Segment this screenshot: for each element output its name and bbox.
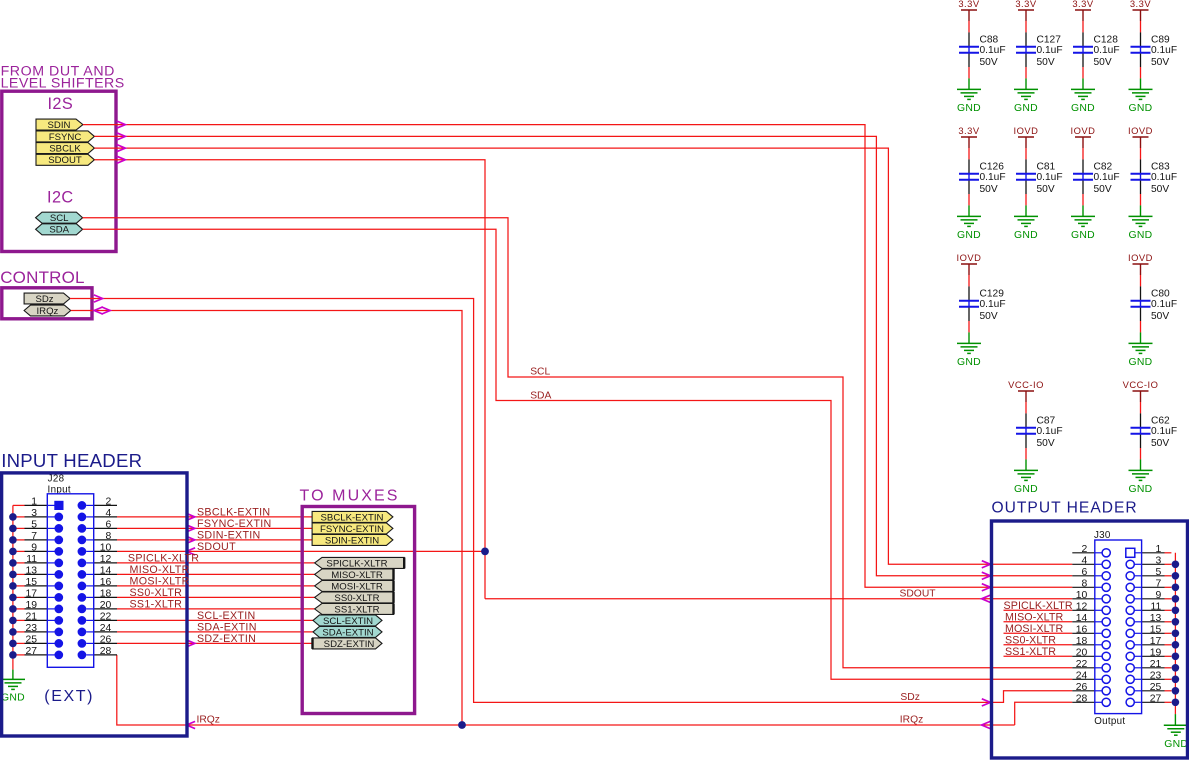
svg-text:19: 19 [25, 600, 37, 611]
svg-text:SCL-EXTIN: SCL-EXTIN [197, 610, 256, 622]
arrow left on IRQz at output header [982, 721, 991, 728]
svg-text:C89: C89 [1151, 35, 1170, 46]
junction IRQz node [458, 721, 466, 729]
pin 3 of J28 [13, 516, 25, 518]
pin 9 of J30 [1126, 595, 1134, 603]
svg-text:SDOUT: SDOUT [197, 541, 236, 553]
arrow right on EXTIN wire [186, 525, 195, 532]
wire output pin12 stub SPICLK-XLTR [1004, 609, 1073, 611]
svg-text:IRQz: IRQz [900, 715, 923, 726]
capacitor C83 [1140, 159, 1142, 173]
pin 17 of J28 [13, 596, 25, 598]
svg-text:24: 24 [1076, 670, 1088, 681]
svg-text:18: 18 [1076, 636, 1088, 647]
svg-text:SS0-XLTR: SS0-XLTR [1005, 634, 1056, 646]
box FROM DUT AND LEVEL SHIFTERS [2, 91, 116, 251]
svg-text:FSYNC: FSYNC [49, 132, 82, 143]
pin 18 of J30 [1072, 644, 1095, 646]
wire SDIN-EXTIN input pin8 to mux port [117, 539, 312, 541]
junction output bus pin 17 [1172, 641, 1180, 649]
port FSYNC (I2S) [36, 131, 94, 142]
svg-text:0.1uF: 0.1uF [980, 172, 1006, 183]
svg-text:50V: 50V [1094, 57, 1112, 68]
svg-text:3.3V: 3.3V [958, 125, 980, 136]
svg-text:6: 6 [106, 520, 112, 531]
pin 25 of J30 [1126, 687, 1134, 695]
arrow right on SDZ-EXTIN wire [186, 640, 195, 647]
wire C83 to ground [1140, 194, 1142, 205]
svg-text:20: 20 [1076, 647, 1088, 658]
svg-text:MISO-XLTR: MISO-XLTR [1005, 611, 1063, 623]
svg-text:LEVEL SHIFTERS: LEVEL SHIFTERS [1, 75, 125, 91]
capacitor C89 [1140, 32, 1142, 46]
svg-text:4: 4 [1082, 555, 1088, 566]
pin 14 of J28 [78, 570, 87, 579]
svg-text:SPICLK-XLTR: SPICLK-XLTR [326, 558, 387, 569]
svg-text:10: 10 [1076, 590, 1088, 601]
wire SS1-XLTR input pin20 to mux port [117, 608, 315, 610]
pin 2 of J30 [1072, 552, 1095, 554]
ground symbol below C87 [1014, 469, 1038, 471]
capacitor C129 [968, 286, 970, 300]
svg-text:0.1uF: 0.1uF [1094, 172, 1120, 183]
connector J30 body [1095, 540, 1142, 714]
wire MOSI-XLTR input pin16 to mux port [117, 585, 315, 587]
svg-text:5: 5 [1156, 567, 1162, 578]
svg-text:MISO-XLTR: MISO-XLTR [130, 564, 190, 576]
port SCL-EXTIN (TO MUXES) [313, 615, 382, 626]
svg-text:5: 5 [31, 520, 37, 531]
wire C62 to ground [1140, 448, 1142, 459]
svg-text:50V: 50V [1037, 57, 1055, 68]
pin 25 of J28 [13, 642, 25, 644]
wire C80 to ground [1140, 321, 1142, 332]
ground symbol below C129 [957, 342, 981, 344]
junction output bus pin 5 [1172, 572, 1180, 580]
wire VCC-IO to C87 [1025, 402, 1027, 413]
svg-text:27: 27 [25, 646, 37, 657]
svg-text:0.1uF: 0.1uF [1037, 45, 1063, 56]
junction input bus pin 9 [9, 548, 17, 556]
port SCL (I2C) [36, 212, 83, 223]
wire MISO-XLTR input pin14 to mux port [117, 573, 315, 575]
wire C81 to ground [1025, 194, 1027, 205]
ground symbol below C127 [1014, 88, 1038, 90]
svg-text:12: 12 [100, 554, 112, 565]
capacitor C88 [968, 32, 970, 46]
pin 27 of J30 [1126, 698, 1134, 706]
svg-text:3.3V: 3.3V [958, 0, 980, 9]
arrow left on SDOUT wire [187, 548, 196, 555]
svg-text:3.3V: 3.3V [1072, 0, 1094, 9]
ground symbol below C80 [1129, 342, 1153, 344]
arrow right on EXTIN wire [186, 536, 195, 543]
ground symbol below C82 [1071, 215, 1095, 217]
svg-text:SBCLK-EXTIN: SBCLK-EXTIN [321, 512, 384, 523]
junction input bus pin 11 [9, 559, 17, 567]
wire output header bus ground segment [1174, 714, 1176, 725]
wire VCC-IO to C62 [1140, 402, 1142, 413]
svg-text:24: 24 [100, 623, 112, 634]
svg-text:SS0-XLTR: SS0-XLTR [130, 587, 183, 599]
port SS1-XLTR (TO MUXES) [315, 603, 394, 614]
pin 26 of J30 [1072, 690, 1095, 692]
wire FSYNC net [94, 136, 1072, 575]
svg-text:14: 14 [1076, 613, 1088, 624]
svg-text:SDz: SDz [900, 692, 919, 703]
svg-text:MOSI-XLTR: MOSI-XLTR [1005, 623, 1063, 635]
box CONTROL [2, 288, 92, 319]
wire output pin20 stub SS1-XLTR [1004, 655, 1073, 657]
junction output bus pin 15 [1172, 630, 1180, 638]
svg-text:C82: C82 [1094, 162, 1113, 173]
svg-text:SDZ-EXTIN: SDZ-EXTIN [324, 639, 375, 650]
wire C88 to ground [968, 67, 970, 78]
svg-text:C128: C128 [1094, 35, 1119, 46]
junction input bus pin 5 [9, 525, 17, 533]
svg-text:C126: C126 [980, 162, 1005, 173]
svg-text:2: 2 [1082, 544, 1088, 555]
svg-text:SS1-XLTR: SS1-XLTR [1005, 646, 1056, 658]
svg-text:VCC-IO: VCC-IO [1123, 379, 1159, 390]
svg-text:Output: Output [1094, 716, 1125, 727]
svg-text:GND: GND [1129, 357, 1153, 368]
junction output bus pin 27 [1172, 699, 1180, 707]
svg-text:SDz: SDz [35, 294, 53, 305]
svg-text:1: 1 [31, 497, 37, 508]
pin 1 of J28 [13, 504, 25, 506]
wire SBCLK-EXTIN input pin4 to mux port [117, 516, 312, 518]
svg-text:CONTROL: CONTROL [0, 268, 85, 287]
svg-text:MOSI-XLTR: MOSI-XLTR [130, 575, 190, 587]
svg-text:FSYNC-EXTIN: FSYNC-EXTIN [320, 524, 384, 535]
pin 10 of J28 [78, 547, 87, 556]
svg-text:28: 28 [100, 646, 112, 657]
port MISO-XLTR (TO MUXES) [315, 569, 394, 580]
svg-text:GND: GND [957, 230, 981, 241]
wire SDA-EXTIN input pin24 to mux port [117, 631, 313, 633]
svg-text:0.1uF: 0.1uF [980, 45, 1006, 56]
pin 19 of J28 [13, 608, 25, 610]
svg-text:17: 17 [1150, 636, 1162, 647]
svg-text:GND: GND [1014, 103, 1038, 114]
svg-text:7: 7 [1156, 578, 1162, 589]
junction input bus pin 27 [9, 651, 17, 659]
wire 3.3V to C88 [968, 21, 970, 32]
svg-text:TO MUXES: TO MUXES [300, 488, 400, 505]
svg-text:13: 13 [1150, 613, 1162, 624]
port SDA-EXTIN (TO MUXES) [313, 626, 382, 637]
wire C89 to ground [1140, 67, 1142, 78]
svg-text:11: 11 [1151, 601, 1162, 612]
pin 23 of J30 [1126, 675, 1134, 683]
svg-text:17: 17 [25, 589, 37, 600]
pin 12 of J30 [1072, 609, 1095, 611]
svg-text:GND: GND [1129, 103, 1153, 114]
arrow right on I2S wire [117, 133, 126, 140]
pin 20 of J30 [1072, 655, 1095, 657]
pin 11 of J28 [13, 562, 25, 564]
pin 24 of J28 [78, 628, 87, 637]
svg-text:15: 15 [1150, 624, 1162, 635]
pin 21 of J30 [1126, 664, 1134, 672]
pin 10 of J30 [1072, 598, 1095, 600]
pin 28 of J30 [1072, 701, 1095, 703]
svg-text:GND: GND [1014, 484, 1038, 495]
wire 3.3V to C127 [1025, 21, 1027, 32]
capacitor C82 [1082, 159, 1084, 173]
svg-text:2: 2 [106, 497, 112, 508]
svg-text:9: 9 [1156, 590, 1162, 601]
wire input header left bus [12, 505, 14, 669]
pin 2 of J28 [78, 501, 87, 510]
junction input bus pin 7 [9, 536, 17, 544]
port SDA (I2C) [36, 224, 83, 235]
arrow right into output header [982, 572, 991, 579]
arrow right on SDz at output header [982, 699, 991, 706]
wire C126 to ground [968, 194, 970, 205]
svg-text:16: 16 [1076, 624, 1088, 635]
wire C129 to ground [968, 321, 970, 332]
svg-text:3: 3 [31, 508, 37, 519]
junction input bus pin 21 [9, 617, 17, 625]
svg-text:50V: 50V [1094, 184, 1112, 195]
wire 3.3V to C126 [968, 148, 970, 159]
svg-text:21: 21 [1150, 659, 1162, 670]
junction output bus pin 11 [1172, 607, 1180, 615]
capacitor C127 [1025, 32, 1027, 46]
pin 14 of J30 [1072, 621, 1095, 623]
svg-text:SDZ-EXTIN: SDZ-EXTIN [197, 633, 256, 645]
wire C87 to ground [1025, 448, 1027, 459]
svg-text:50V: 50V [1151, 311, 1169, 322]
pin 27 of J28 [13, 654, 25, 656]
wire 3.3V to C128 [1082, 21, 1084, 32]
svg-text:0.1uF: 0.1uF [1151, 426, 1177, 437]
svg-text:23: 23 [1150, 670, 1162, 681]
junction output bus pin 13 [1172, 618, 1180, 626]
svg-text:8: 8 [106, 531, 112, 542]
wire IRQz to output header pin 28 [1015, 702, 1073, 725]
svg-text:IOVD: IOVD [1014, 125, 1039, 136]
box OUTPUT HEADER [992, 521, 1188, 758]
svg-text:SDA: SDA [49, 225, 69, 236]
svg-text:C83: C83 [1151, 162, 1170, 173]
svg-text:50V: 50V [1151, 184, 1169, 195]
wire 3.3V to C89 [1140, 21, 1142, 32]
svg-text:3.3V: 3.3V [1130, 0, 1152, 9]
wire C128 to ground [1082, 67, 1084, 78]
svg-text:SCL: SCL [530, 367, 550, 378]
svg-text:GND: GND [1014, 230, 1038, 241]
svg-text:SCL-EXTIN: SCL-EXTIN [323, 616, 373, 627]
svg-text:0.1uF: 0.1uF [1151, 45, 1177, 56]
svg-text:23: 23 [25, 623, 37, 634]
svg-text:50V: 50V [980, 184, 998, 195]
svg-text:SDOUT: SDOUT [48, 155, 82, 166]
arrow right on EXTIN wire [186, 513, 195, 520]
arrow bidirectional on IRQz wire [94, 307, 103, 314]
svg-text:3.3V: 3.3V [1015, 0, 1037, 9]
wire SCL-EXTIN input pin22 to mux port [117, 619, 313, 621]
svg-text:VCC-IO: VCC-IO [1008, 379, 1044, 390]
wire output pin18 stub SS0-XLTR [1004, 644, 1073, 646]
svg-text:SDIN: SDIN [48, 120, 71, 131]
svg-text:IRQz: IRQz [197, 715, 220, 726]
svg-text:SDA: SDA [530, 390, 551, 401]
svg-text:IRQz: IRQz [36, 306, 58, 317]
svg-text:IOVD: IOVD [1128, 125, 1153, 136]
junction output bus pin 3 [1172, 561, 1180, 569]
pin 4 of J28 [78, 513, 87, 522]
ground symbol below C81 [1014, 215, 1038, 217]
svg-text:MISO-XLTR: MISO-XLTR [331, 570, 383, 581]
ground symbol below C88 [957, 88, 981, 90]
junction SDOUT node [481, 548, 489, 556]
svg-text:SDOUT: SDOUT [900, 588, 937, 599]
svg-text:22: 22 [1076, 659, 1088, 670]
svg-text:IOVD: IOVD [1128, 252, 1153, 263]
svg-text:J28: J28 [48, 473, 65, 484]
svg-text:C80: C80 [1151, 289, 1170, 300]
pin 17 of J30 [1126, 641, 1134, 649]
pin 26 of J28 [78, 639, 87, 648]
svg-text:(EXT): (EXT) [44, 688, 94, 705]
pin 20 of J28 [78, 605, 87, 614]
junction output bus pin 21 [1172, 664, 1180, 672]
wire input header bus ground segment [12, 670, 14, 680]
svg-text:3: 3 [1156, 555, 1162, 566]
pin 8 of J30 [1072, 586, 1095, 588]
svg-text:9: 9 [31, 543, 37, 554]
arrow right on I2S wire [117, 145, 126, 152]
svg-text:C87: C87 [1037, 416, 1056, 427]
svg-text:SS1-XLTR: SS1-XLTR [130, 598, 183, 610]
svg-text:C81: C81 [1037, 162, 1056, 173]
svg-text:50V: 50V [980, 311, 998, 322]
pin 22 of J30 [1072, 667, 1095, 669]
arrow right on SDz wire [94, 295, 103, 302]
wire SPICLK-XLTR input pin12 to mux port [117, 562, 315, 564]
svg-text:1: 1 [1156, 544, 1162, 555]
wire SDOUT vertical from I2S [94, 160, 485, 599]
junction output bus pin 19 [1172, 653, 1180, 661]
svg-text:50V: 50V [1151, 57, 1169, 68]
arrow right on I2S wire [117, 121, 126, 128]
svg-text:25: 25 [25, 635, 37, 646]
svg-text:GND: GND [1129, 230, 1153, 241]
svg-text:SDA-EXTIN: SDA-EXTIN [197, 622, 257, 634]
arrow right into output header [982, 561, 991, 568]
svg-text:SDIN-EXTIN: SDIN-EXTIN [197, 530, 261, 542]
pin 7 of J28 [13, 539, 25, 541]
svg-text:7: 7 [31, 531, 37, 542]
junction output bus pin 23 [1172, 676, 1180, 684]
capacitor C62 [1140, 413, 1142, 427]
pin 9 of J28 [13, 550, 25, 552]
svg-text:SS1-XLTR: SS1-XLTR [334, 604, 379, 615]
capacitor C80 [1140, 286, 1142, 300]
wire SS0-XLTR input pin18 to mux port [117, 596, 315, 598]
svg-text:I2S: I2S [47, 95, 73, 113]
pin 23 of J28 [13, 631, 25, 633]
wire IOVD to C129 [968, 275, 970, 286]
wire FSYNC-EXTIN input pin6 to mux port [117, 527, 312, 529]
svg-text:GND: GND [957, 103, 981, 114]
svg-text:18: 18 [100, 589, 112, 600]
svg-text:IOVD: IOVD [957, 252, 982, 263]
pin 6 of J30 [1072, 575, 1095, 577]
svg-text:16: 16 [100, 577, 112, 588]
capacitor C126 [968, 159, 970, 173]
ground symbol below C83 [1129, 215, 1153, 217]
svg-text:27: 27 [1150, 693, 1162, 704]
capacitor C128 [1082, 32, 1084, 46]
pin 6 of J28 [78, 524, 87, 533]
pin 22 of J28 [78, 616, 87, 625]
arrow left on SDOUT at output header [982, 595, 991, 602]
svg-text:GND: GND [1071, 103, 1095, 114]
junction input bus pin 13 [9, 571, 17, 579]
port SS0-XLTR (TO MUXES) [315, 592, 394, 603]
capacitor C87 [1025, 413, 1027, 427]
svg-text:8: 8 [1082, 578, 1088, 589]
wire SDIN net [83, 125, 1072, 588]
svg-text:12: 12 [1076, 601, 1088, 612]
svg-text:GND: GND [957, 357, 981, 368]
port SDIN (I2S) [36, 119, 83, 130]
svg-text:SBCLK-EXTIN: SBCLK-EXTIN [197, 507, 270, 519]
port MOSI-XLTR (TO MUXES) [315, 580, 394, 591]
svg-text:20: 20 [100, 600, 112, 611]
pin 12 of J28 [78, 559, 87, 568]
junction input bus pin 25 [9, 640, 17, 648]
wire SCL net [83, 218, 1073, 668]
svg-text:I2C: I2C [47, 189, 74, 207]
svg-text:FSYNC-EXTIN: FSYNC-EXTIN [197, 518, 272, 530]
pin 16 of J30 [1072, 632, 1095, 634]
svg-text:6: 6 [1082, 567, 1088, 578]
svg-text:14: 14 [100, 566, 112, 577]
svg-text:SS0-XLTR: SS0-XLTR [334, 593, 379, 604]
svg-text:SPICLK-XLTR: SPICLK-XLTR [1004, 600, 1073, 612]
port SBCLK-EXTIN (TO MUXES) [312, 511, 393, 522]
svg-text:26: 26 [1076, 682, 1088, 693]
wire SDz net [70, 299, 1072, 703]
port FSYNC-EXTIN (TO MUXES) [312, 523, 393, 534]
svg-text:OUTPUT HEADER: OUTPUT HEADER [992, 499, 1138, 516]
svg-text:10: 10 [100, 543, 112, 554]
junction input bus pin 3 [9, 513, 17, 521]
ground symbol below C89 [1129, 88, 1153, 90]
port SDOUT (I2S) [36, 154, 94, 165]
wire IOVD to C82 [1082, 148, 1084, 159]
svg-text:0.1uF: 0.1uF [1094, 45, 1120, 56]
wire IRQz main horizontal [117, 655, 1015, 725]
wire SDA net [83, 229, 1073, 679]
pin 16 of J28 [78, 582, 87, 591]
svg-text:50V: 50V [1037, 184, 1055, 195]
wire SBCLK net [94, 148, 1072, 564]
svg-text:28: 28 [1076, 693, 1088, 704]
svg-text:SPICLK-XLTR: SPICLK-XLTR [128, 552, 199, 564]
port SDIN-EXTIN (TO MUXES) [312, 534, 393, 545]
junction input bus pin 17 [9, 594, 17, 602]
connector J28 body [47, 494, 93, 668]
svg-text:GND: GND [1, 693, 25, 704]
svg-text:0.1uF: 0.1uF [1037, 172, 1063, 183]
pin 18 of J28 [78, 593, 87, 602]
